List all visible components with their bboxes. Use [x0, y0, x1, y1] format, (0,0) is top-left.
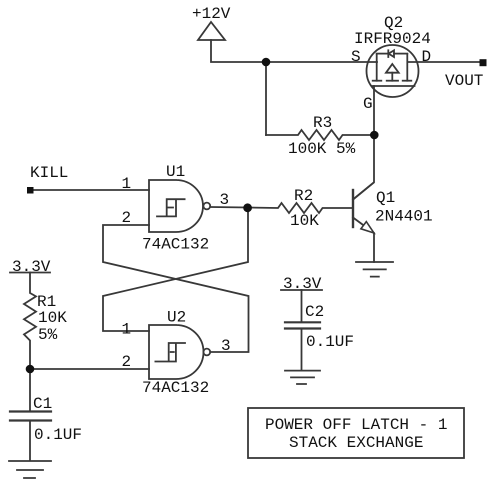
svg-text:G: G	[363, 95, 373, 113]
svg-text:2: 2	[122, 209, 132, 227]
svg-text:STACK EXCHANGE: STACK EXCHANGE	[289, 434, 423, 452]
svg-text:C2: C2	[305, 303, 324, 321]
svg-text:3: 3	[221, 337, 231, 355]
svg-text:74AC132: 74AC132	[142, 379, 209, 397]
svg-text:VOUT: VOUT	[445, 72, 483, 90]
svg-text:3.3V: 3.3V	[12, 258, 51, 276]
svg-text:R3: R3	[313, 114, 332, 132]
svg-text:D: D	[422, 48, 432, 66]
svg-text:S: S	[351, 48, 361, 66]
svg-text:5%: 5%	[38, 326, 58, 344]
svg-text:Q1: Q1	[376, 189, 395, 207]
svg-text:1: 1	[122, 321, 132, 339]
svg-text:R2: R2	[294, 187, 313, 205]
svg-text:1: 1	[122, 175, 132, 193]
svg-text:0.1UF: 0.1UF	[306, 333, 354, 351]
svg-text:0.1UF: 0.1UF	[34, 426, 82, 444]
svg-text:POWER OFF LATCH - 1: POWER OFF LATCH - 1	[265, 416, 447, 434]
svg-text:C1: C1	[33, 395, 52, 413]
svg-text:+12V: +12V	[192, 5, 231, 23]
svg-text:3: 3	[220, 191, 230, 209]
svg-text:2: 2	[122, 353, 132, 371]
svg-text:10K: 10K	[290, 212, 319, 230]
svg-text:2N4401: 2N4401	[375, 208, 433, 226]
svg-text:3.3V: 3.3V	[283, 275, 322, 293]
svg-text:U2: U2	[167, 309, 186, 327]
svg-text:100K 5%: 100K 5%	[288, 140, 356, 158]
svg-text:U1: U1	[166, 163, 185, 181]
svg-text:10K: 10K	[38, 309, 67, 327]
svg-text:IRFR9024: IRFR9024	[354, 30, 431, 48]
svg-text:KILL: KILL	[30, 164, 68, 182]
svg-text:74AC132: 74AC132	[142, 236, 209, 254]
